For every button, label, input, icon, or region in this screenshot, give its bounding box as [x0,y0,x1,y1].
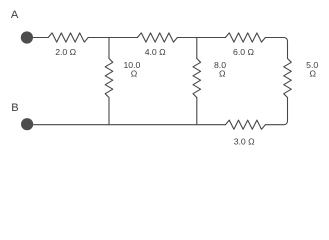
terminal B [21,118,33,130]
wire top: R 2.0ohm to junction node1 to R 4.0ohm [88,37,137,39]
svg-text:6.0 Ω: 6.0 Ω [233,47,254,57]
resistor 3.0 ohm [225,120,265,129]
wire branch node2: top lead from top wire [196,38,198,59]
resistor 10.0 ohm [105,59,113,98]
resistor 8.0 ohm [193,59,201,98]
resistor 6.0 ohm [225,33,265,42]
wire top: terminal A to R 2.0ohm [27,37,48,39]
resistor 4.0 ohm [137,33,177,42]
wire branch node1: bottom lead to bottom wire [108,98,110,125]
wire bottom: terminal B to junction node1b to junction node2b to R 3.0ohm [27,124,225,126]
svg-text:4.0 Ω: 4.0 Ω [145,47,166,57]
wire bottom-right corner: R 5.0ohm down to bottom wire [265,98,287,125]
svg-text:2.0 Ω: 2.0 Ω [55,47,76,57]
svg-text:A: A [11,9,19,21]
terminal A [21,31,33,43]
wire branch node2: bottom lead to bottom wire [196,98,198,125]
wire branch node1: top lead from top wire [108,38,110,59]
svg-text:3.0 Ω: 3.0 Ω [234,136,255,146]
svg-text:B: B [11,102,18,114]
resistor 5.0 ohm [284,59,292,98]
wire top-right corner: R 6.0ohm to right branch [265,38,287,59]
wire top: R 4.0ohm to junction node2 to R 6.0ohm [177,37,225,39]
resistor 2.0 ohm [48,33,88,42]
